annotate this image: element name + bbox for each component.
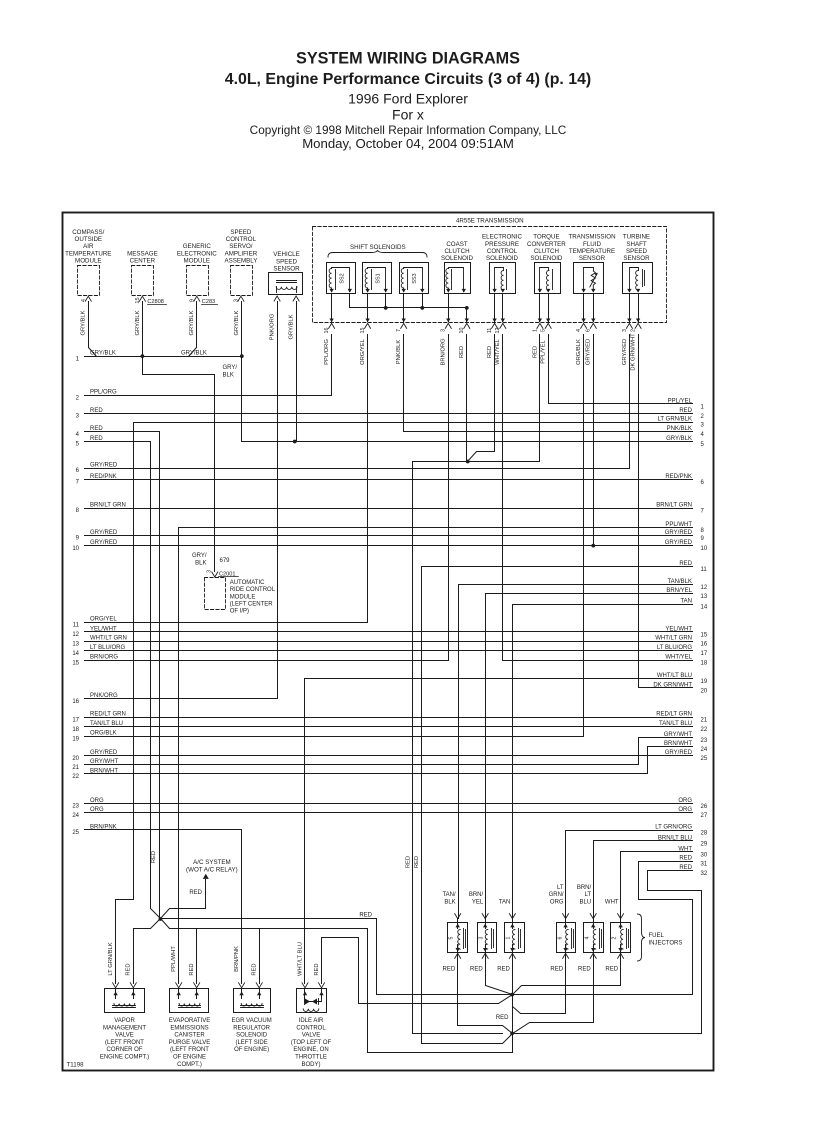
wire WHT/LT BLU row R19	[305, 673, 693, 679]
svg-text:1: 1	[532, 329, 538, 332]
wire DK GRN/WHT row R20	[639, 682, 693, 688]
svg-text:TORQUE: TORQUE	[533, 234, 559, 241]
svg-text:14: 14	[701, 605, 708, 611]
wire WHT/YEL row R18	[503, 655, 693, 661]
wire BRN/ORG row L15	[72, 655, 448, 667]
wire RED junction A to row R31 loop	[513, 862, 693, 995]
svg-text:GRY/BLK: GRY/BLK	[666, 436, 692, 442]
fuel injector 5	[442, 892, 467, 972]
svg-text:THROTTLE: THROTTLE	[295, 1055, 327, 1061]
svg-text:RED: RED	[189, 890, 202, 896]
svg-text:GRY/BLK: GRY/BLK	[189, 310, 195, 335]
svg-text:CONTROL: CONTROL	[296, 1025, 326, 1031]
svg-text:15: 15	[72, 660, 79, 666]
valve EVAPORATIVE EMISSIONS CANISTER PURGE VALVE	[169, 983, 210, 1068]
svg-text:RED: RED	[470, 966, 483, 972]
svg-text:10: 10	[701, 546, 708, 552]
svg-text:YEL: YEL	[472, 900, 484, 906]
svg-text:BRN/WHT: BRN/WHT	[664, 741, 692, 747]
svg-text:LT GRN/BLK: LT GRN/BLK	[108, 942, 114, 975]
svg-text:(LEFT FRONT: (LEFT FRONT	[170, 1047, 209, 1053]
solenoid COAST CLUTCH SOLENOID	[441, 241, 474, 294]
svg-text:15: 15	[360, 328, 366, 334]
svg-text:31: 31	[701, 862, 708, 868]
fuel injector 3	[469, 892, 497, 972]
svg-text:SHAFT: SHAFT	[626, 241, 647, 248]
svg-text:TAN: TAN	[499, 900, 511, 906]
wire RED injector 6 to vertical bus	[513, 953, 566, 1014]
svg-text:GRY/RED: GRY/RED	[90, 462, 118, 468]
svg-text:CONTROL: CONTROL	[487, 248, 518, 255]
svg-text:CONVERTER: CONVERTER	[527, 241, 566, 248]
svg-text:9: 9	[190, 299, 196, 302]
diagram border frame	[63, 213, 714, 1071]
svg-text:BLK: BLK	[444, 900, 455, 906]
svg-text:OF I/P): OF I/P)	[230, 609, 249, 615]
svg-text:GRY/RED: GRY/RED	[90, 750, 118, 756]
svg-text:BLK: BLK	[195, 561, 206, 567]
svg-text:PURGE VALVE: PURGE VALVE	[169, 1040, 210, 1046]
svg-text:BLK: BLK	[223, 373, 234, 379]
svg-text:GRY/WHT: GRY/WHT	[90, 759, 119, 765]
svg-text:23: 23	[701, 738, 708, 744]
solenoid EGR VACUUM REGULATOR SOLENOID	[231, 983, 271, 1053]
junction dot RED net	[466, 460, 470, 464]
svg-text:21: 21	[701, 718, 708, 724]
svg-text:27: 27	[701, 813, 708, 819]
wire PPL/ORG SS2 to row L2	[331, 335, 333, 396]
svg-text:RED: RED	[550, 966, 563, 972]
svg-text:VAPOR: VAPOR	[114, 1018, 135, 1024]
svg-text:PPL/WHT: PPL/WHT	[665, 522, 692, 528]
svg-text:TAN/LT BLU: TAN/LT BLU	[659, 721, 692, 727]
svg-text:WHT: WHT	[605, 900, 619, 906]
svg-text:RED: RED	[90, 408, 103, 414]
svg-text:C283: C283	[202, 299, 215, 305]
wire WHT/LT BLU row R19 down to IAC valve	[304, 679, 306, 984]
svg-text:GRY/BLK: GRY/BLK	[81, 310, 87, 335]
junction dot TFT GRY/RED on row 10	[591, 544, 595, 548]
svg-text:AIR: AIR	[83, 243, 94, 250]
wire PNK/BLK row R4	[404, 426, 693, 432]
svg-text:SOLENOID: SOLENOID	[486, 255, 519, 262]
svg-text:PNK/BLK: PNK/BLK	[667, 426, 692, 432]
svg-text:RED: RED	[532, 346, 538, 358]
svg-text:INJECTORS: INJECTORS	[649, 941, 683, 947]
svg-text:4: 4	[81, 299, 87, 302]
wire GRY/BLK from GEM to node L1	[189, 302, 197, 357]
svg-text:DK GRN/WHT: DK GRN/WHT	[631, 333, 637, 371]
wire RED junction X to vapor management valve	[134, 919, 161, 984]
wire TAN injector 1 drop	[512, 915, 514, 919]
svg-text:BODY): BODY)	[301, 1062, 320, 1068]
svg-text:TAN/BLK: TAN/BLK	[667, 579, 692, 585]
wire PPL/YEL TCC to row R1	[548, 335, 550, 404]
svg-text:GRY/BLK: GRY/BLK	[234, 310, 240, 335]
svg-text:10: 10	[72, 546, 79, 552]
wire LT GRN/ORG row R28	[566, 825, 693, 831]
svg-text:SERVO/: SERVO/	[229, 243, 253, 250]
svg-text:RED: RED	[189, 963, 195, 975]
svg-text:PNK/BLK: PNK/BLK	[396, 340, 402, 365]
svg-text:5: 5	[449, 936, 455, 939]
svg-text:LT BLU/ORG: LT BLU/ORG	[90, 645, 125, 651]
svg-text:RED: RED	[605, 966, 618, 972]
junction node L1 (GRY/BLK)	[141, 354, 145, 358]
wire PPL/ORG row L2	[76, 390, 332, 402]
svg-text:RED/PNK: RED/PNK	[90, 474, 117, 480]
svg-text:EMMISSIONS: EMMISSIONS	[170, 1025, 208, 1031]
wire RED coast clutch to RED junction	[466, 335, 468, 462]
wire RED row R32	[648, 865, 693, 871]
fuel injector 1	[497, 900, 524, 973]
wire TAN row R14	[513, 599, 693, 605]
svg-text:Monday, October 04, 2004 09:5: Monday, October 04, 2004 09:51AM	[302, 136, 514, 151]
svg-text:C2808: C2808	[147, 299, 163, 305]
svg-text:RED/LT GRN: RED/LT GRN	[90, 712, 126, 718]
svg-text:BRN/LT BLU: BRN/LT BLU	[658, 835, 692, 841]
svg-text:4: 4	[576, 329, 582, 332]
svg-text:RED: RED	[359, 913, 372, 919]
svg-text:CONTROL: CONTROL	[226, 236, 257, 243]
svg-text:14: 14	[72, 651, 79, 657]
module COMPASS/OUTSIDE AIR TEMPERATURE MODULE	[65, 229, 111, 301]
svg-text:10: 10	[459, 328, 465, 334]
wire GRY/BLK from speed control servo through L1 down to R5	[241, 302, 243, 442]
svg-text:16: 16	[701, 642, 708, 648]
svg-text:Copyright © 1998 Mitchell Repa: Copyright © 1998 Mitchell Repair Informa…	[250, 123, 567, 137]
svg-text:BRN/LT GRN: BRN/LT GRN	[90, 502, 126, 508]
svg-text:(LEFT FRONT: (LEFT FRONT	[105, 1040, 144, 1046]
junction dot at R5/VSS wire	[293, 440, 297, 444]
module MESSAGE CENTER	[127, 250, 158, 301]
svg-text:2: 2	[612, 936, 618, 939]
wire GRY/WHT row jog L21-R23	[638, 738, 640, 765]
wire BRN/YEL row R13 down to injector 3	[485, 594, 487, 915]
svg-text:BRN/PNK: BRN/PNK	[234, 946, 240, 972]
svg-text:OUTSIDE: OUTSIDE	[75, 236, 103, 243]
svg-text:FLUID: FLUID	[583, 241, 601, 248]
label A/C SYSTEM (W/O A/C RELAY)	[186, 859, 238, 874]
svg-text:PRESSURE: PRESSURE	[485, 241, 519, 248]
svg-text:20: 20	[72, 756, 79, 762]
svg-text:RED/LT GRN: RED/LT GRN	[656, 712, 692, 718]
wire BRN/LT GRN row L8	[76, 502, 693, 514]
pin 15 / connector C2808 (message center)	[135, 297, 166, 305]
svg-text:24: 24	[72, 813, 79, 819]
svg-text:RIDE CONTROL: RIDE CONTROL	[230, 587, 276, 593]
wire PNK/ORG from VSS down to row L16	[277, 302, 279, 699]
junction A (injector RED bus)	[510, 993, 514, 997]
wire BRN/YEL row R13	[486, 588, 693, 594]
solenoid SS1 (shift solenoid 1)	[363, 263, 392, 294]
svg-text:17: 17	[72, 717, 79, 723]
svg-text:RED: RED	[314, 963, 320, 975]
wire BRN/ORG coast clutch to row L15	[448, 335, 450, 661]
wire LT GRN/BLK row R3	[134, 417, 693, 423]
svg-text:ORG/YEL: ORG/YEL	[90, 617, 117, 623]
svg-text:A/C SYSTEM: A/C SYSTEM	[193, 859, 230, 866]
wire BRN/WHT row jog L22-R24	[647, 747, 649, 774]
svg-text:26: 26	[701, 804, 708, 810]
wire WHT/LT GRN row L13	[72, 636, 692, 648]
svg-text:RED/PNK: RED/PNK	[665, 474, 692, 480]
label GRY/BLK at branch bend	[223, 365, 238, 379]
svg-text:SOLENOID: SOLENOID	[236, 1033, 268, 1039]
svg-text:RED: RED	[679, 865, 692, 871]
svg-text:ENGINE COMPT.): ENGINE COMPT.)	[100, 1055, 149, 1061]
svg-text:12: 12	[495, 328, 501, 334]
svg-text:11: 11	[701, 567, 708, 573]
svg-text:MODULE: MODULE	[230, 594, 256, 600]
svg-text:YEL/WHT: YEL/WHT	[90, 626, 117, 632]
svg-text:(TOP LEFT OF: (TOP LEFT OF	[291, 1040, 332, 1046]
wire color labels (module drops)	[81, 310, 295, 340]
wire WHT row R30	[621, 846, 693, 852]
pin 9 / connector C283 (GEM)	[190, 299, 218, 305]
wire GRY/BLK branch from node L1 to ARC module	[143, 357, 215, 572]
sensor TURBINE SHAFT SPEED SENSOR	[623, 234, 653, 294]
junction B (injector RED bus)	[510, 1032, 514, 1036]
svg-text:TURBINE: TURBINE	[623, 234, 650, 241]
wire LT GRN/ORG row R28 to injector 6	[565, 831, 567, 919]
wire RED row L5 riser to junction X	[151, 442, 161, 919]
svg-text:COAST: COAST	[446, 241, 468, 248]
svg-text:SYSTEM WIRING DIAGRAMS: SYSTEM WIRING DIAGRAMS	[296, 50, 520, 68]
wire RED row L4 riser to junction X	[159, 432, 161, 919]
wire PNK/BLK SS3 to row R4	[403, 335, 405, 432]
svg-text:BRN/WHT: BRN/WHT	[90, 768, 118, 774]
svg-text:GRY/RED: GRY/RED	[586, 339, 592, 365]
wire RED injector 4 to junction B	[513, 953, 594, 1034]
svg-text:ORG: ORG	[678, 807, 692, 813]
wire GRY/WHT row R23	[639, 732, 693, 738]
svg-text:CENTER: CENTER	[130, 258, 156, 265]
svg-text:32: 32	[701, 871, 708, 877]
wire ORG row L23	[72, 798, 692, 810]
svg-text:FUEL: FUEL	[649, 933, 665, 939]
svg-text:BRN/PNK: BRN/PNK	[90, 824, 117, 830]
wire GRY/RED TFT to row L10	[593, 335, 595, 546]
wire GRY/BLK row R5	[243, 436, 693, 442]
svg-text:ORG: ORG	[678, 798, 692, 804]
svg-text:SPEED: SPEED	[626, 248, 648, 255]
valve VAPOR MANAGEMENT VALVE	[100, 983, 149, 1061]
wire BRN/WHT row R24	[648, 741, 693, 747]
svg-text:RED: RED	[487, 346, 493, 358]
wire GRY/RED row L6	[76, 462, 630, 474]
svg-text:TAN/LT BLU: TAN/LT BLU	[90, 721, 123, 727]
svg-text:GRY/WHT: GRY/WHT	[664, 732, 693, 738]
svg-text:TAN/: TAN/	[442, 892, 456, 898]
wire TAN/BLK injector 5 drop	[458, 915, 460, 919]
wire RED junction B to row R32 loop	[513, 871, 702, 1034]
svg-text:GRY/BLK: GRY/BLK	[135, 310, 141, 335]
svg-text:4R55E TRANSMISSION: 4R55E TRANSMISSION	[456, 218, 524, 225]
svg-text:WHT: WHT	[678, 846, 692, 852]
svg-text:WHT/YEL: WHT/YEL	[495, 338, 501, 365]
wire RED row R31	[639, 856, 693, 862]
wire WHT row R30 to injector 2	[620, 852, 622, 919]
svg-text:WHT/LT BLU: WHT/LT BLU	[657, 673, 692, 679]
svg-text:CANISTER: CANISTER	[174, 1033, 205, 1039]
wire RED purge valve drop	[196, 929, 198, 984]
svg-text:SENSOR: SENSOR	[623, 255, 650, 262]
wire RED EPC to RED junction (jog)	[468, 335, 495, 462]
svg-text:7: 7	[396, 329, 402, 332]
right margin wire labels (continued rows)	[655, 408, 692, 813]
svg-text:3: 3	[206, 570, 212, 573]
wire TAN row R14 down to injector 1	[512, 605, 514, 915]
svg-text:ORG/BLK: ORG/BLK	[576, 339, 582, 365]
svg-text:RED: RED	[126, 963, 132, 975]
svg-text:PPL/YEL: PPL/YEL	[668, 398, 693, 404]
svg-text:PPL/ORG: PPL/ORG	[90, 390, 117, 396]
svg-text:16: 16	[324, 328, 330, 334]
svg-text:COMPT.): COMPT.)	[177, 1062, 202, 1068]
svg-text:SPEED: SPEED	[230, 229, 252, 236]
wire GRY/WHT row L21	[72, 759, 638, 771]
wire PPL/WHT row R8 down to purge valve	[178, 528, 180, 984]
fuel injector 2	[605, 900, 631, 973]
svg-text:MODULE: MODULE	[184, 258, 210, 265]
svg-text:2: 2	[631, 329, 637, 332]
A/C system feed arrow	[203, 874, 209, 879]
svg-text:LT: LT	[585, 892, 592, 898]
svg-text:BRN/YEL: BRN/YEL	[666, 588, 692, 594]
svg-text:ORG/BLK: ORG/BLK	[90, 731, 117, 737]
wire GRY/RED row L9	[76, 530, 693, 542]
svg-text:CLUTCH: CLUTCH	[444, 248, 469, 255]
wire RED EGR drop	[259, 929, 261, 984]
svg-text:TAN: TAN	[680, 599, 692, 605]
wire PPL/WHT row R8	[179, 522, 693, 528]
label FUEL INJECTORS with brace	[638, 914, 646, 961]
svg-text:RED: RED	[496, 1015, 509, 1021]
module SPEED CONTROL SERVO/AMPLIFIER ASSEMBLY	[224, 229, 257, 301]
svg-text:11: 11	[73, 623, 80, 629]
svg-text:WHT/LT GRN: WHT/LT GRN	[655, 636, 692, 642]
svg-text:3: 3	[441, 329, 447, 332]
wire RED branch down and around to injector junction B	[368, 929, 513, 1053]
wire DK GRN/WHT TSS to row R20	[638, 335, 640, 688]
svg-text:(WOT A/C RELAY): (WOT A/C RELAY)	[186, 866, 238, 873]
svg-text:RED: RED	[679, 856, 692, 862]
wire RED row L3	[76, 408, 693, 420]
svg-text:RED: RED	[252, 963, 258, 975]
svg-text:For x: For x	[392, 107, 424, 123]
svg-text:ORG: ORG	[90, 798, 104, 804]
wire GRY/RED row L20	[72, 750, 692, 762]
svg-text:12: 12	[701, 585, 708, 591]
svg-text:ENGINE, ON: ENGINE, ON	[293, 1047, 328, 1053]
solenoid SS3 (shift solenoid 3)	[400, 263, 429, 294]
sensor TRANSMISSION FLUID TEMPERATURE SENSOR (thermistor)	[568, 234, 615, 294]
svg-text:SOLENOID: SOLENOID	[530, 255, 563, 262]
svg-text:3: 3	[234, 299, 240, 302]
wire BRN/YEL injector 3 drop	[485, 915, 487, 919]
svg-text:12: 12	[72, 632, 79, 638]
wire RED injector 1 (x512) into junction A and B	[512, 953, 514, 995]
svg-text:EVAPORATIVE: EVAPORATIVE	[169, 1018, 210, 1024]
svg-text:ORG/YEL: ORG/YEL	[360, 338, 366, 365]
svg-text:RED: RED	[414, 856, 420, 868]
svg-text:GRY/: GRY/	[223, 365, 238, 371]
svg-text:IDLE AIR: IDLE AIR	[299, 1018, 324, 1024]
svg-text:28: 28	[701, 831, 708, 837]
valve IDLE AIR CONTROL VALVE	[291, 983, 332, 1068]
svg-text:WHT/LT GRN: WHT/LT GRN	[90, 636, 127, 642]
svg-text:15: 15	[135, 297, 141, 303]
right margin row numbers 1-32	[701, 404, 708, 877]
svg-text:23: 23	[72, 804, 79, 810]
svg-text:RED: RED	[151, 851, 157, 863]
svg-text:BRN/ORG: BRN/ORG	[90, 655, 118, 661]
svg-text:3: 3	[622, 329, 628, 332]
wire GRY/BLK from message center to node L1	[142, 302, 144, 357]
svg-text:25: 25	[72, 830, 79, 836]
svg-text:GRY/RED: GRY/RED	[665, 530, 693, 536]
svg-text:RED: RED	[679, 561, 692, 567]
svg-text:BRN/: BRN/	[469, 892, 484, 898]
svg-text:30: 30	[701, 852, 708, 858]
wire RED injector 2 to junction A	[513, 953, 621, 995]
wire TAN/BLK row R12	[459, 579, 693, 585]
svg-text:OF ENGINE: OF ENGINE	[173, 1055, 206, 1061]
wire BRN/LT BLU row R29	[594, 835, 693, 841]
wire BRN/PNK row L25	[72, 824, 241, 836]
svg-text:VALVE: VALVE	[115, 1033, 133, 1039]
svg-text:RED: RED	[497, 966, 510, 972]
svg-text:BRN/LT GRN: BRN/LT GRN	[656, 502, 692, 508]
svg-text:SS2: SS2	[340, 273, 346, 283]
svg-text:REGULATOR: REGULATOR	[233, 1025, 270, 1031]
svg-text:15: 15	[701, 632, 708, 638]
junction dot at L1/speed-control wire	[240, 354, 244, 358]
svg-text:MANAGEMENT: MANAGEMENT	[103, 1025, 146, 1031]
svg-text:4: 4	[584, 936, 590, 939]
svg-text:22: 22	[701, 727, 708, 733]
svg-text:4.0L, Engine Performance Circu: 4.0L, Engine Performance Circuits (3 of …	[225, 71, 591, 88]
wire BRN/LT BLU row R29 to injector 4	[593, 841, 595, 919]
wire RED/PNK row L7	[76, 474, 693, 486]
wire ORG/YEL row L11	[73, 617, 368, 629]
svg-text:1: 1	[505, 936, 511, 939]
svg-text:GRY/BLK: GRY/BLK	[181, 351, 207, 357]
svg-text:PPL/ORG: PPL/ORG	[324, 339, 330, 365]
wire RED injector 3 to junction A	[486, 953, 513, 995]
svg-text:BLU: BLU	[580, 900, 592, 906]
wire WHT/YEL EPC to row R18	[502, 335, 504, 661]
svg-text:WHT/LT BLU: WHT/LT BLU	[297, 942, 303, 976]
sensor VEHICLE SPEED SENSOR	[269, 251, 303, 301]
svg-text:13: 13	[701, 594, 708, 600]
svg-text:LT GRN/ORG: LT GRN/ORG	[655, 825, 692, 831]
wire LT GRN/BLK row R3 riser down to vapor mgmt valve	[116, 423, 134, 984]
wire RED junction X to purge/EGR branch	[161, 919, 368, 929]
svg-text:(LEFT CENTER: (LEFT CENTER	[230, 602, 274, 608]
svg-text:RED: RED	[90, 426, 103, 432]
svg-text:20: 20	[701, 688, 708, 694]
svg-text:18: 18	[72, 727, 79, 733]
svg-text:13: 13	[72, 642, 79, 648]
wire RED row L5	[76, 436, 151, 448]
svg-text:CLUTCH: CLUTCH	[534, 248, 559, 255]
module AUTOMATIC RIDE CONTROL MODULE	[192, 553, 276, 615]
wire RED junction X to A/C system arrow	[161, 880, 206, 919]
svg-text:CORNER OF: CORNER OF	[107, 1047, 143, 1053]
svg-text:ORG: ORG	[550, 900, 564, 906]
